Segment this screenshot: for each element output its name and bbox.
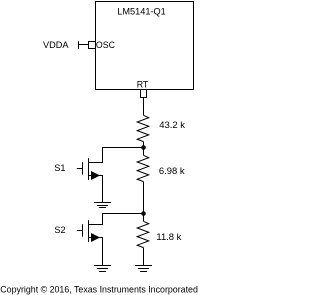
svg-text:Copyright © 2016, Texas Instru: Copyright © 2016, Texas Instruments Inco… [0, 285, 198, 295]
svg-text:RT: RT [137, 80, 149, 90]
svg-text:VDDA: VDDA [43, 40, 69, 50]
svg-text:S2: S2 [54, 225, 65, 235]
svg-text:S1: S1 [54, 163, 65, 173]
svg-text:OSC: OSC [96, 40, 116, 50]
svg-text:LM5141-Q1: LM5141-Q1 [117, 6, 166, 16]
svg-text:11.8 k: 11.8 k [156, 232, 181, 243]
svg-text:6.98 k: 6.98 k [159, 166, 185, 177]
svg-text:43.2 k: 43.2 k [159, 120, 185, 131]
